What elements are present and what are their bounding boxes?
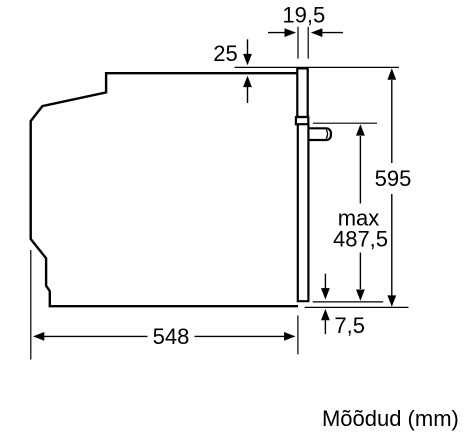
dimension 548 line <box>44 335 148 337</box>
svg-text:25: 25 <box>213 41 237 66</box>
extension line body-bottom reference <box>305 306 409 308</box>
oven body outline <box>31 73 298 306</box>
svg-text:595: 595 <box>375 166 412 191</box>
svg-text:548: 548 <box>153 324 190 349</box>
dimension 7,5 down arrow <box>324 274 326 289</box>
svg-text:Mõõdud (mm): Mõõdud (mm) <box>322 406 459 431</box>
dimension 25 down arrow <box>247 39 249 54</box>
oven door upper box <box>297 68 307 117</box>
oven door lower panel <box>298 124 309 301</box>
extension line 548 right <box>297 315 299 354</box>
handle end-cap arc <box>326 130 327 139</box>
svg-text:19,5: 19,5 <box>282 3 325 28</box>
dimension 7,5 up arrow <box>324 320 326 334</box>
extension line 19,5 left <box>297 27 299 59</box>
dimension 25 up arrow <box>247 87 249 104</box>
extension line 548 left <box>30 250 32 360</box>
dimension 19,5 right arrow <box>323 32 344 34</box>
extension line door-bottom reference <box>313 301 384 303</box>
svg-text:487,5: 487,5 <box>333 227 388 252</box>
extension line handle-area (max 487,5 top reference) <box>313 122 377 124</box>
svg-text:7,5: 7,5 <box>334 313 365 338</box>
door handle <box>309 128 331 140</box>
extension line 19,5 right <box>307 27 309 59</box>
oven door flange <box>296 117 308 124</box>
extension line door-top (595/25 reference) <box>235 66 400 68</box>
dimension 595 line <box>391 80 393 163</box>
dimension max 487,5 line <box>359 136 361 204</box>
dimension 19,5 left arrow <box>268 32 285 34</box>
